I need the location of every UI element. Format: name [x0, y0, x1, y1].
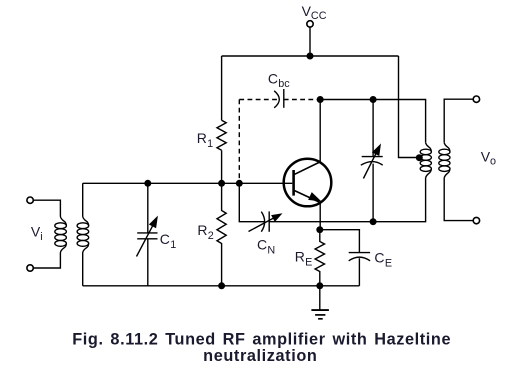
output terminal top	[473, 96, 479, 102]
svg-text:i: i	[40, 231, 42, 243]
wire: Vi bottom lead	[33, 253, 60, 269]
resistor R2	[217, 183, 226, 285]
svg-text:C: C	[268, 70, 278, 86]
svg-text:CC: CC	[311, 10, 327, 22]
wire: emitter lead	[319, 203, 321, 230]
label Vo	[481, 148, 496, 167]
svg-text:R: R	[197, 130, 207, 146]
capacitor Cbc (dashed internal feedback)	[239, 89, 317, 183]
capacitor CE	[349, 253, 370, 286]
ground	[311, 286, 329, 319]
svg-text:C: C	[374, 250, 384, 266]
transformer T1 primary coil	[55, 217, 67, 253]
label Vcc	[302, 3, 327, 22]
wire: tank top line to output transformer	[320, 100, 425, 143]
wire: bottom rail	[83, 285, 360, 287]
node: tuning capacitor top junction	[370, 96, 377, 103]
node: collector junction on tank top line	[317, 96, 324, 103]
wire: R1 top lead	[221, 56, 223, 120]
svg-text:R: R	[197, 222, 207, 238]
label Vi	[31, 223, 43, 243]
wire: collector lead	[319, 100, 321, 162]
svg-text:o: o	[490, 155, 496, 167]
wire: T1 secondary bottom lead	[82, 253, 84, 286]
transistor Q1	[284, 159, 332, 207]
label RE	[295, 249, 313, 269]
svg-text:1: 1	[170, 239, 176, 251]
output terminal bottom	[473, 217, 479, 223]
svg-text:C: C	[160, 231, 170, 247]
caption	[72, 330, 451, 365]
label R1	[197, 130, 213, 150]
capacitor CN (neutralizing, variable)	[249, 211, 282, 231]
wire: Vcc drop from supply terminal	[309, 27, 311, 56]
label Cbc	[268, 70, 290, 90]
transformer T1 secondary coil	[77, 217, 89, 253]
wire: base line	[83, 182, 293, 184]
svg-text:Fig. 8.11.2 Tuned RF amplifier: Fig. 8.11.2 Tuned RF amplifier with Haze…	[72, 330, 451, 348]
node: R1/R2/base junction	[218, 180, 225, 187]
power terminal Vcc	[307, 21, 313, 27]
node: R2 bottom junction	[218, 282, 225, 289]
label CN	[257, 237, 275, 257]
variable capacitor (output tank tuning)	[361, 100, 383, 222]
wire: T2 secondary top lead to output terminal	[444, 99, 473, 143]
svg-text:E: E	[305, 256, 312, 268]
wire: T2 secondary bottom lead to output terminal	[444, 178, 473, 221]
svg-text:E: E	[385, 257, 392, 269]
node: base / neutralization junction	[236, 180, 243, 187]
transformer T2 primary coil	[420, 143, 431, 178]
wire: Vcc right leg down to coil tap	[399, 56, 417, 158]
wire: R1 bottom lead	[221, 150, 223, 183]
label CE	[374, 250, 392, 270]
svg-text:N: N	[267, 244, 275, 256]
wire: Vi top lead	[33, 200, 60, 216]
transformer T2 secondary coil	[439, 143, 450, 178]
svg-text:bc: bc	[278, 78, 290, 90]
capacitor C1 (input tuning, variable)	[137, 183, 158, 285]
svg-text:1: 1	[207, 138, 213, 150]
resistor R1	[217, 120, 226, 150]
node: Vcc rail junction	[307, 53, 314, 60]
svg-text:2: 2	[208, 230, 214, 242]
svg-text:neutralization: neutralization	[203, 347, 317, 365]
node: tuning capacitor bottom junction	[370, 218, 377, 225]
node: tap on output transformer primary	[416, 154, 423, 161]
node: emitter junction	[316, 226, 323, 233]
svg-text:C: C	[257, 237, 267, 253]
label R2	[197, 222, 213, 242]
wire: emitter branch to CE	[320, 230, 360, 253]
node: C1 top junction	[144, 180, 151, 187]
label C1	[160, 231, 177, 251]
source Vi terminals	[27, 197, 33, 203]
wire: neutralization line to tank bottom	[269, 178, 425, 222]
wire: T1 secondary top lead	[82, 183, 84, 216]
wire: Vcc rail (top horizontal)	[222, 55, 399, 57]
wire: neutralization branch from base	[239, 183, 264, 221]
svg-text:R: R	[295, 249, 305, 265]
node: RE bottom / ground junction	[316, 282, 323, 289]
resistor RE	[315, 230, 324, 286]
